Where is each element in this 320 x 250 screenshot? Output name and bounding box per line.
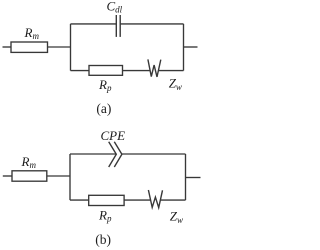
wire right vertical (b) — [185, 154, 187, 200]
wire input stub (b) — [3, 175, 12, 177]
svg-text:Rm: Rm — [21, 154, 37, 170]
wire Rm to node (b) — [47, 175, 70, 177]
wire top rail left (b) — [70, 153, 116, 155]
wire Rm to node (a) — [48, 46, 71, 48]
svg-text:Rm: Rm — [24, 25, 40, 41]
svg-text:Zw: Zw — [170, 209, 183, 225]
wire Zw to node (b) — [160, 199, 185, 201]
svg-text:CPE: CPE — [101, 128, 126, 143]
resistor Rm (b) — [12, 171, 47, 181]
resistor Rp (a) — [89, 66, 123, 76]
wire top rail right (a) — [120, 23, 183, 25]
wire output stub (a) — [184, 46, 198, 48]
wire right vertical (a) — [183, 24, 185, 71]
wire Rp to Zw (b) — [124, 199, 151, 201]
wire input stub (a) — [3, 46, 12, 48]
Warburg element Zw (b) — [148, 190, 162, 208]
resistor Rm (a) — [11, 42, 48, 52]
resistor Rp (b) — [89, 195, 124, 205]
wire output stub (b) — [186, 177, 201, 179]
svg-text:Zw: Zw — [169, 76, 182, 92]
wire left vertical (a) — [70, 24, 72, 71]
wire Zw to node (a) — [159, 70, 184, 72]
svg-text:Rp: Rp — [98, 207, 112, 223]
CPE element (b) — [109, 142, 122, 167]
svg-text:(b): (b) — [95, 232, 111, 247]
Warburg element Zw (a) — [148, 59, 161, 77]
wire top rail left (a) — [71, 23, 117, 25]
svg-text:Cdl: Cdl — [107, 0, 123, 15]
svg-text:Rp: Rp — [98, 77, 112, 93]
wire Rp to Zw (a) — [123, 70, 151, 72]
wire bottom rail left (a) — [71, 70, 90, 72]
capacitor Cdl plates (a) — [116, 15, 120, 37]
wire left vertical (b) — [69, 154, 71, 200]
wire top rail right (b) — [122, 153, 186, 155]
wire bottom rail left (b) — [70, 199, 89, 201]
svg-text:(a): (a) — [96, 101, 111, 116]
